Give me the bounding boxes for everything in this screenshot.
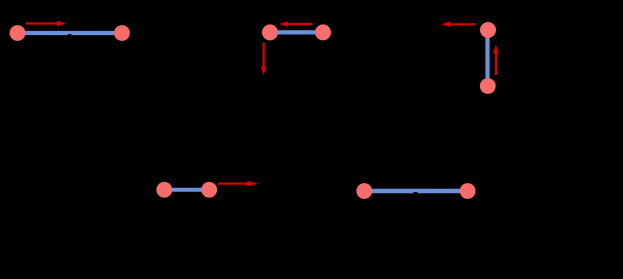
node D1 ball — [156, 182, 172, 198]
wire: dumbbell E rod — [364, 189, 467, 193]
wire: dumbbell B rod — [270, 30, 323, 34]
node D2 ball — [201, 182, 217, 198]
arrow A velocity right — [26, 21, 66, 27]
node A2 ball — [114, 25, 130, 41]
wire: dumbbell A rod — [18, 31, 123, 35]
node E center-of-mass marker — [413, 192, 417, 195]
node E2 ball — [460, 183, 476, 199]
node B2 ball — [315, 24, 331, 40]
node E1 ball — [356, 183, 372, 199]
arrow B velocity down — [261, 42, 267, 75]
node A1 ball — [10, 25, 26, 41]
arrow C velocity left — [442, 22, 476, 28]
wire: dumbbell D rod — [164, 188, 209, 192]
wire: dumbbell C rod (vertical) — [485, 30, 489, 86]
node C2 ball bottom — [480, 78, 496, 94]
arrow B velocity left — [279, 21, 313, 27]
node B1 ball — [262, 24, 278, 40]
arrow D velocity right — [218, 181, 258, 186]
node A center-of-mass marker — [68, 34, 72, 37]
arrow C velocity up — [493, 44, 499, 75]
node C1 ball top — [480, 22, 496, 38]
